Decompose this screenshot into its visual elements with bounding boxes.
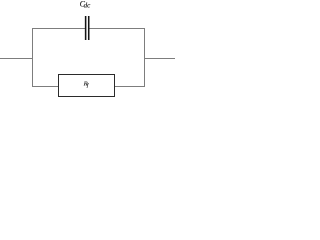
svg-text:dc: dc	[84, 2, 92, 10]
